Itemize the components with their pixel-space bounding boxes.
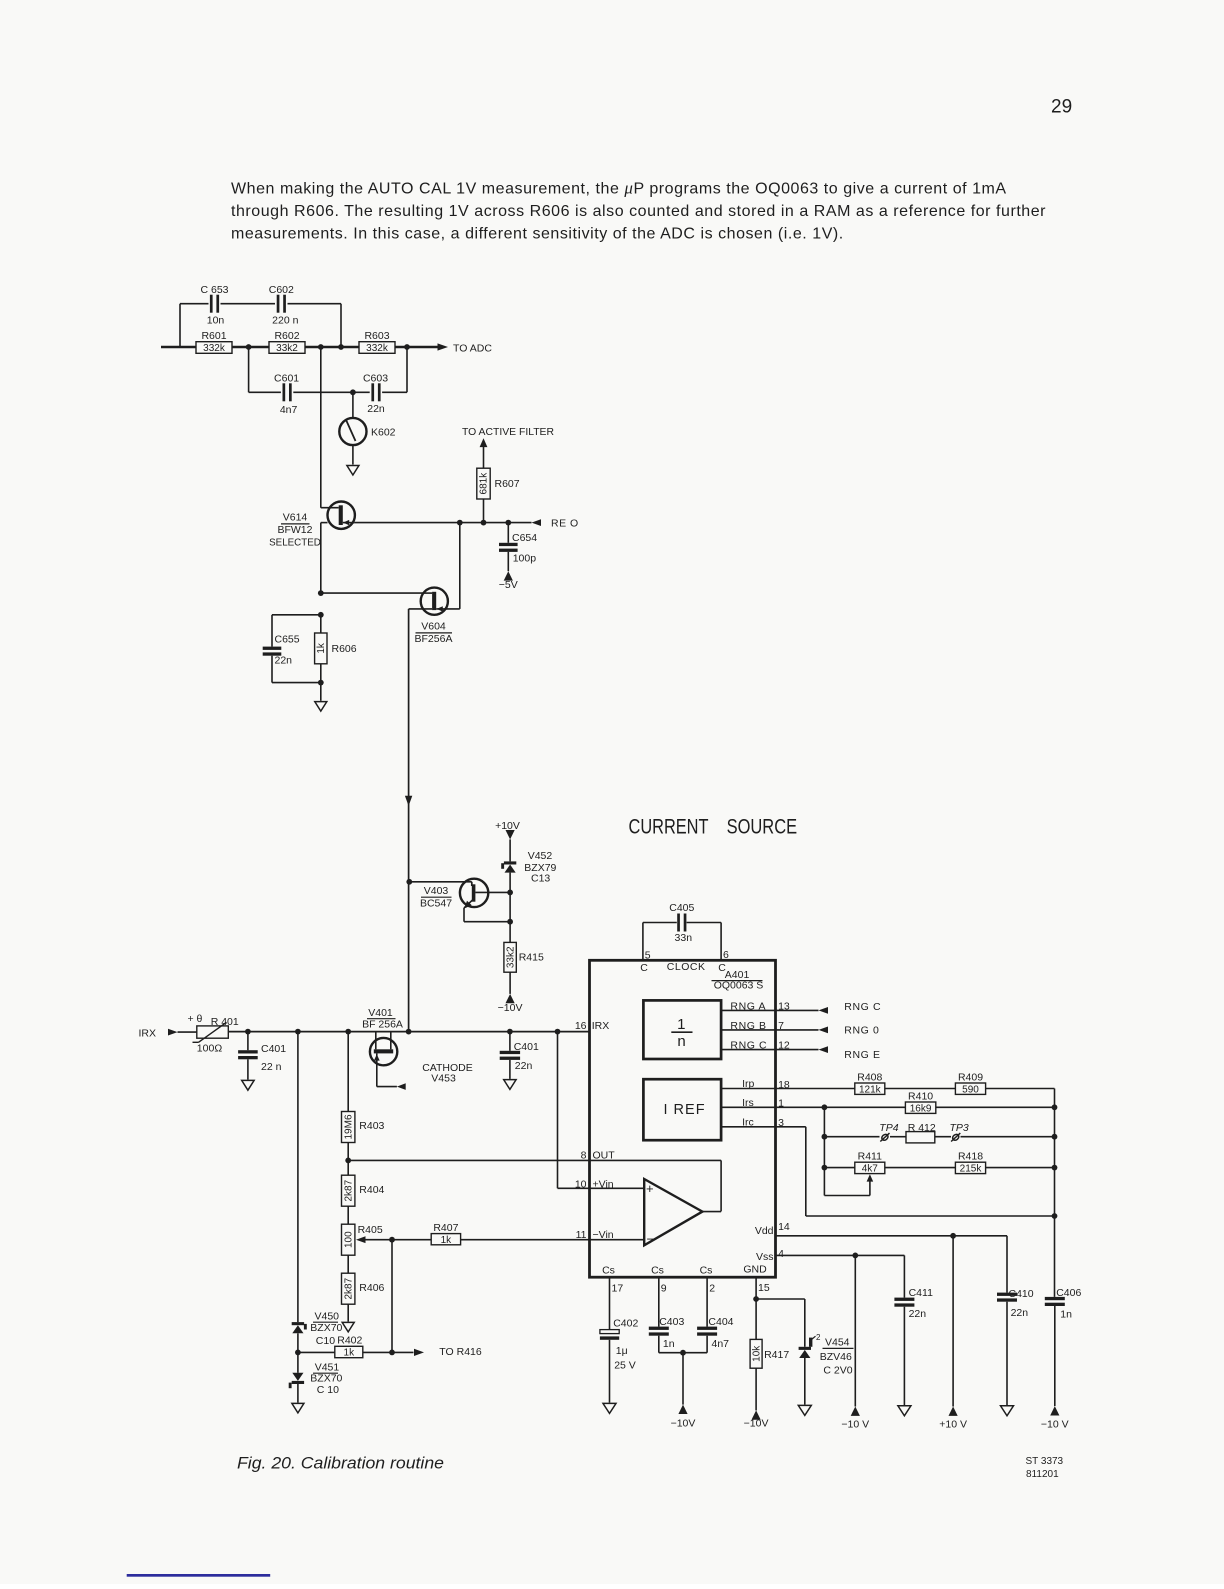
svg-text:4n7: 4n7 [280,404,298,416]
svg-text:BC547: BC547 [420,897,452,909]
svg-text:C13: C13 [531,873,550,885]
svg-text:R418: R418 [958,1151,983,1163]
svg-text:R409: R409 [958,1071,983,1083]
svg-text:2: 2 [816,1333,821,1342]
svg-text:6: 6 [723,949,729,961]
svg-text:16: 16 [575,1020,587,1032]
svg-text:ST 3373: ST 3373 [1026,1456,1064,1467]
svg-text:BZX70: BZX70 [310,1322,342,1334]
svg-text:22 n: 22 n [261,1061,282,1073]
svg-text:C655: C655 [275,634,300,646]
svg-text:C404: C404 [708,1316,733,1328]
svg-text:TP4: TP4 [879,1122,898,1134]
svg-text:R415: R415 [519,952,544,964]
svg-text:V604: V604 [421,621,446,633]
svg-text:V403: V403 [424,885,449,897]
svg-text:−10V: −10V [498,1002,523,1014]
svg-text:V454: V454 [825,1337,850,1349]
svg-text:1μ: 1μ [616,1345,628,1357]
svg-text:33k2: 33k2 [505,946,516,968]
svg-text:−10 V: −10 V [1041,1419,1069,1431]
svg-text:through R606. The resulting 1V: through R606. The resulting 1V across R6… [231,203,1046,220]
svg-text:1n: 1n [663,1338,675,1350]
svg-text:TO ACTIVE FILTER: TO ACTIVE FILTER [462,427,554,438]
svg-text:Irc: Irc [742,1116,754,1128]
svg-text:R607: R607 [495,478,520,490]
svg-text:Vdd: Vdd [755,1225,774,1237]
svg-text:measurements. In this case, a: measurements. In this case, a different … [231,225,844,242]
svg-text:220 n: 220 n [272,315,298,327]
svg-text:BZV46: BZV46 [820,1351,852,1363]
svg-text:1k: 1k [441,1235,453,1246]
svg-text:RE O: RE O [551,517,579,529]
svg-text:Cs: Cs [602,1264,615,1276]
svg-text:25 V: 25 V [614,1360,636,1372]
svg-text:IRX: IRX [592,1020,610,1032]
svg-text:R406: R406 [359,1282,384,1294]
svg-text:29: 29 [1051,97,1072,118]
svg-text:1: 1 [677,1016,685,1033]
svg-text:BF 256A: BF 256A [362,1019,403,1031]
svg-text:R402: R402 [337,1335,362,1347]
svg-text:OQ0063 S: OQ0063 S [714,980,764,992]
svg-text:CLOCK: CLOCK [667,961,706,973]
svg-text:11: 11 [576,1229,587,1241]
svg-text:1n: 1n [1060,1308,1072,1320]
svg-text:CURRENT: CURRENT [629,814,709,838]
svg-text:4k7: 4k7 [862,1164,879,1175]
svg-text:−10V: −10V [671,1418,696,1430]
svg-text:C403: C403 [659,1316,684,1328]
svg-text:+10 V: +10 V [939,1419,967,1431]
svg-text:22n: 22n [909,1308,927,1320]
svg-text:121k: 121k [859,1084,882,1095]
svg-text:TO R416: TO R416 [439,1346,482,1358]
svg-text:2k87: 2k87 [343,1179,354,1201]
svg-text:215k: 215k [960,1164,983,1175]
svg-text:SELECTED: SELECTED [269,538,321,549]
svg-text:V614: V614 [283,512,308,524]
svg-text:R602: R602 [274,330,299,342]
svg-text:332k: 332k [203,343,226,354]
svg-text:C405: C405 [669,902,694,914]
svg-text:10: 10 [575,1178,587,1190]
svg-text:5: 5 [645,950,651,962]
svg-text:Cs: Cs [651,1264,664,1276]
svg-text:−5V: −5V [499,579,518,591]
svg-text:SOURCE: SOURCE [727,814,798,838]
svg-text:C602: C602 [269,284,294,296]
svg-text:TP3: TP3 [950,1122,969,1134]
svg-text:100Ω: 100Ω [197,1042,223,1054]
svg-text:RNG E: RNG E [844,1049,880,1061]
svg-text:R606: R606 [332,643,357,655]
svg-text:Cs: Cs [700,1264,713,1276]
svg-text:−: − [647,1232,655,1247]
svg-text:590: 590 [962,1084,979,1095]
svg-text:811201: 811201 [1026,1469,1059,1480]
svg-text:Irs: Irs [742,1097,754,1109]
svg-text:332k: 332k [366,343,389,354]
svg-text:R408: R408 [857,1071,882,1083]
svg-text:16k9: 16k9 [910,1103,932,1114]
svg-text:R407: R407 [433,1222,458,1234]
svg-text:Vss: Vss [756,1251,774,1263]
svg-text:C401: C401 [514,1041,539,1053]
svg-text:R405: R405 [358,1224,383,1236]
svg-text:Fig. 20. Calibration routine: Fig. 20. Calibration routine [237,1454,444,1472]
svg-text:−10V: −10V [744,1418,769,1430]
svg-text:R 412: R 412 [908,1122,936,1134]
svg-text:2k87: 2k87 [343,1277,354,1299]
svg-text:RNG 0: RNG 0 [844,1025,879,1037]
svg-text:RNG A: RNG A [730,1001,766,1013]
svg-text:BF256A: BF256A [415,633,453,645]
svg-text:4: 4 [778,1248,784,1260]
svg-text:10k: 10k [751,1345,762,1362]
svg-text:TO ADC: TO ADC [453,342,492,354]
svg-text:K602: K602 [371,426,396,438]
svg-text:RNG C: RNG C [844,1001,881,1013]
svg-text:BZX70: BZX70 [310,1373,342,1385]
svg-text:22n: 22n [515,1060,533,1072]
svg-text:C 10: C 10 [317,1384,339,1396]
svg-text:9: 9 [661,1283,667,1295]
svg-text:R603: R603 [364,330,389,342]
svg-text:8: 8 [581,1150,587,1162]
svg-text:R417: R417 [764,1349,789,1361]
svg-text:+ θ: + θ [188,1013,203,1025]
svg-text:100: 100 [343,1231,354,1248]
svg-text:C654: C654 [512,532,537,544]
svg-text:V453: V453 [431,1072,456,1084]
svg-text:C406: C406 [1056,1287,1081,1299]
svg-text:C411: C411 [909,1287,933,1299]
svg-text:4n7: 4n7 [712,1338,730,1350]
svg-text:10n: 10n [207,315,225,327]
svg-text:100p: 100p [513,553,537,565]
svg-text:C 653: C 653 [200,284,228,296]
svg-text:33n: 33n [675,932,693,944]
svg-text:22n: 22n [1011,1307,1029,1319]
svg-text:681k: 681k [479,472,490,495]
svg-text:I REF: I REF [664,1102,706,1118]
svg-text:C401: C401 [261,1043,286,1055]
svg-text:RNG C: RNG C [730,1040,767,1052]
svg-text:1k: 1k [344,1348,356,1359]
svg-text:Irp: Irp [742,1078,754,1090]
svg-text:R411: R411 [858,1151,882,1163]
svg-text:R410: R410 [908,1090,933,1102]
svg-text:V452: V452 [528,850,553,862]
svg-text:33k2: 33k2 [276,343,298,354]
svg-text:15: 15 [758,1282,770,1294]
svg-text:R403: R403 [359,1120,384,1132]
svg-text:C10: C10 [316,1335,335,1347]
svg-text:19M6: 19M6 [343,1114,354,1139]
svg-text:V450: V450 [315,1311,340,1323]
svg-text:C410: C410 [1009,1288,1034,1300]
svg-text:1k: 1k [316,642,327,654]
svg-text:C603: C603 [363,372,388,384]
svg-text:BFW12: BFW12 [277,524,312,536]
svg-text:R 401: R 401 [211,1016,239,1028]
svg-text:2: 2 [709,1283,715,1295]
svg-text:C: C [640,962,648,974]
svg-text:n: n [677,1033,685,1050]
svg-text:R404: R404 [359,1184,384,1196]
svg-text:−10 V: −10 V [841,1419,869,1431]
svg-text:RNG B: RNG B [730,1020,766,1032]
svg-text:V401: V401 [368,1007,393,1019]
svg-text:GND: GND [743,1263,767,1275]
svg-text:22n: 22n [275,655,293,667]
svg-text:17: 17 [612,1283,624,1295]
svg-text:IRX: IRX [139,1028,157,1040]
svg-text:C402: C402 [613,1318,638,1330]
svg-text:22n: 22n [367,403,385,415]
svg-text:When making the AUTO CAL 1V me: When making the AUTO CAL 1V measurement,… [231,179,1007,198]
svg-text:C601: C601 [274,372,299,384]
svg-text:C 2V0: C 2V0 [823,1365,852,1377]
svg-text:14: 14 [778,1221,790,1233]
svg-text:+: + [646,1181,654,1196]
svg-text:R601: R601 [201,330,226,342]
